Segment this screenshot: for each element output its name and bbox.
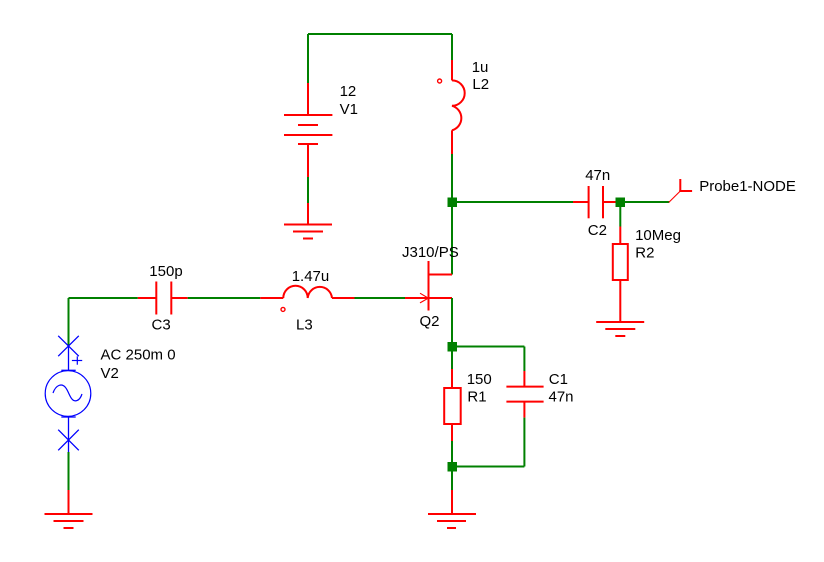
wire L2 bottom to node <box>451 154 453 202</box>
wire JFET source down to node <box>451 298 453 347</box>
svg-text:150: 150 <box>467 371 492 388</box>
svg-text:AC 250m 0: AC 250m 0 <box>101 347 176 364</box>
wire node to R2 <box>619 202 621 227</box>
ground below source network <box>428 490 476 528</box>
svg-text:47n: 47n <box>549 389 574 406</box>
svg-text:Probe1-NODE: Probe1-NODE <box>699 178 796 195</box>
svg-text:L2: L2 <box>472 76 489 93</box>
ground below V1 <box>284 203 332 239</box>
wire bottom rail <box>452 466 524 468</box>
wire L3 to gate <box>355 297 406 299</box>
wire R1 top <box>451 347 453 370</box>
svg-text:Q2: Q2 <box>420 313 440 330</box>
svg-text:1.47u: 1.47u <box>292 268 330 285</box>
wire C1 top <box>523 347 525 372</box>
wire C1 bottom <box>523 418 525 467</box>
svg-text:C1: C1 <box>549 371 568 388</box>
probe Probe1 <box>669 179 692 202</box>
wire top rail from V1 to L2 <box>308 33 452 35</box>
ground below V2 <box>45 490 93 528</box>
svg-text:1u: 1u <box>472 59 489 76</box>
capacitor C2 <box>573 186 616 218</box>
node drain junction <box>448 198 458 208</box>
svg-text:R2: R2 <box>635 245 654 262</box>
wire battery top segment <box>307 34 309 83</box>
inductor L2 <box>438 60 465 154</box>
wire node to probe <box>620 201 669 203</box>
wire bottom node to ground <box>451 467 453 490</box>
resistor R2 <box>613 227 628 323</box>
svg-text:V1: V1 <box>340 101 358 118</box>
wire L2 top segment <box>451 34 453 60</box>
svg-text:12: 12 <box>340 83 357 100</box>
svg-text:C2: C2 <box>588 222 607 239</box>
svg-text:J310/PS: J310/PS <box>402 244 459 261</box>
wire C3 to L3 <box>188 297 261 299</box>
svg-text:47n: 47n <box>585 167 610 184</box>
battery V1 <box>284 83 332 177</box>
svg-text:150p: 150p <box>149 263 182 280</box>
svg-text:10Meg: 10Meg <box>635 227 681 244</box>
svg-text:L3: L3 <box>296 317 313 334</box>
transistor Q2 JFET <box>405 261 452 311</box>
node source junction <box>448 342 458 352</box>
wire source node to C1 branch <box>452 346 524 348</box>
source V2 <box>45 336 91 452</box>
svg-text:R1: R1 <box>467 389 486 406</box>
wire battery bottom to ground <box>307 177 309 203</box>
wire node to C2 <box>452 201 573 203</box>
wire gate rail left segment <box>69 297 138 299</box>
resistor R1 <box>444 369 461 441</box>
capacitor C3 <box>138 282 188 315</box>
capacitor C1 <box>506 371 543 418</box>
wire R1 bottom <box>451 441 453 467</box>
inductor L3 <box>260 286 354 312</box>
svg-text:V2: V2 <box>101 365 119 382</box>
wire JFET drain <box>451 202 453 275</box>
svg-text:C3: C3 <box>152 317 171 334</box>
node bottom junction <box>448 462 458 472</box>
wire V2 bottom <box>68 452 70 490</box>
ground below R2 <box>596 322 644 336</box>
node C2 right junction <box>616 198 626 208</box>
wire V2 top <box>68 298 70 346</box>
